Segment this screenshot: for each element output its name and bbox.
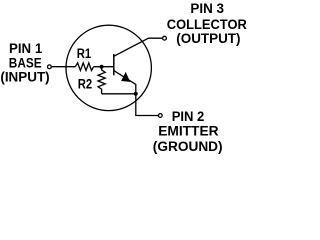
terminal PIN 2 open circle (158, 114, 162, 118)
svg-text:PIN 3: PIN 3 (190, 1, 224, 17)
svg-text:(GROUND): (GROUND) (153, 139, 223, 155)
svg-text:(INPUT): (INPUT) (0, 69, 50, 85)
transistor package outline circle (66, 25, 151, 110)
resistor R2 (98, 67, 105, 94)
svg-text:R1: R1 (77, 46, 91, 62)
transistor Q1 emitter arrow (121, 72, 130, 82)
transistor Q1 emitter lead (114, 71, 158, 116)
wire R2 bottom to emitter node (102, 93, 136, 95)
svg-text:R2: R2 (78, 77, 92, 93)
node emitter junction dot (134, 92, 138, 96)
svg-text:(OUTPUT): (OUTPUT) (176, 31, 240, 47)
resistor R1 (75, 63, 93, 71)
wire R1 to base node (94, 66, 114, 68)
terminal PIN 3 open circle (163, 36, 167, 40)
wire base input lead (52, 66, 76, 68)
node base junction dot (100, 65, 104, 69)
transistor Q1 collector lead (114, 38, 162, 56)
terminal PIN 1 open circle (48, 65, 52, 69)
transistor Q1 base bar (113, 54, 115, 75)
svg-text:EMITTER: EMITTER (158, 124, 218, 140)
